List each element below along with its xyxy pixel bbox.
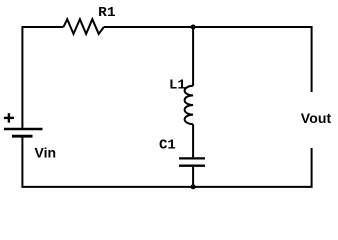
wire: middle branch top (junction to coil): [192, 27, 194, 86]
svg-text:Vin: Vin: [35, 145, 57, 161]
capacitor C1: top plate: [179, 157, 205, 159]
svg-text:L1: L1: [169, 77, 186, 93]
battery Vin: long plate: [4, 128, 43, 130]
svg-text:Vout: Vout: [301, 110, 332, 126]
wire: left top segment + top wire to resistor: [22, 27, 63, 128]
svg-text:R1: R1: [98, 5, 115, 21]
wire: right bottom segment + bottom wire + left bottom segment: [22, 137, 311, 187]
wire: top wire from resistor to top-right corner, right top segment: [104, 27, 312, 92]
inductor L1: [185, 86, 194, 124]
svg-text:C1: C1: [159, 137, 176, 153]
wire: middle branch between coil and capacitor: [192, 124, 194, 157]
node: top junction dot: [191, 25, 196, 30]
capacitor C1: bottom plate: [179, 165, 205, 167]
battery Vin: short plate: [12, 135, 33, 138]
node: bottom junction dot: [191, 184, 196, 189]
battery plus sign: [4, 113, 14, 122]
wire: middle branch bottom (capacitor to bottom junction): [192, 167, 194, 187]
resistor R1: [64, 19, 104, 34]
